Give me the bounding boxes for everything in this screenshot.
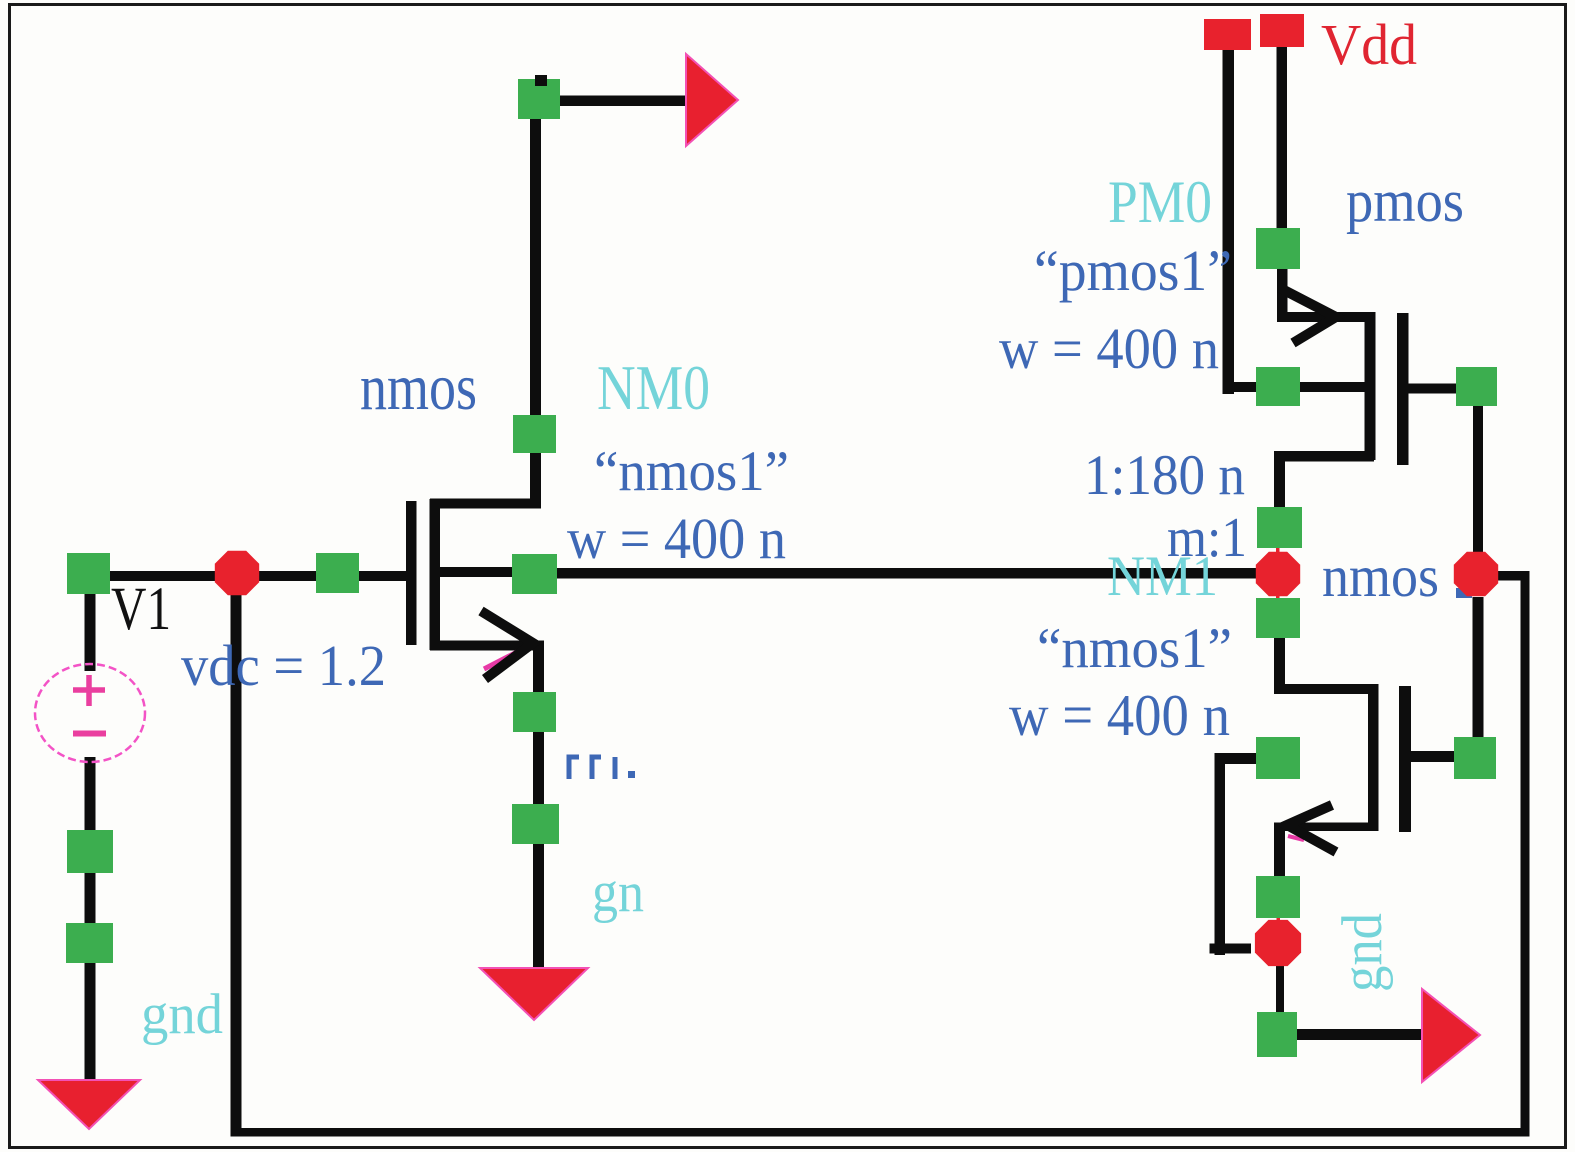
- pin square PM0 bulk: [1256, 367, 1300, 406]
- wire stub node to right bus: [1490, 571, 1529, 581]
- transistor NM0 drain arm: [430, 499, 541, 509]
- svg-text:nmos: nmos: [360, 351, 477, 424]
- pin square PM0 gate: [1456, 367, 1497, 406]
- text fragment marks blue: [569, 757, 615, 779]
- transistor PM0 source arm: [1277, 312, 1369, 322]
- wire bottom bus: [231, 1128, 1530, 1137]
- wire junction drop left: [231, 578, 242, 1136]
- voltage source V1 circle: [35, 664, 145, 762]
- port triangle output top: [686, 54, 738, 146]
- wire NM1 bulk bottom stub: [1210, 944, 1252, 954]
- pin square gnd net bottom right: [1257, 1012, 1297, 1057]
- supply square Vdd left: [1204, 19, 1251, 50]
- ground triangle right: [1422, 989, 1480, 1082]
- transistor NM1 drain arm: [1274, 684, 1378, 694]
- net line red above NM1 source node: [1277, 912, 1281, 924]
- wire NM0 source vertical: [533, 645, 544, 975]
- svg-text:NM0: NM0: [597, 352, 710, 423]
- wire PM0 bulk arm right: [1295, 382, 1370, 392]
- svg-text:gn: gn: [592, 861, 644, 924]
- transistor NM0 gate bar: [406, 501, 417, 645]
- wire output top horizontal: [556, 96, 691, 107]
- svg-text:V1: V1: [111, 576, 171, 643]
- transistor NM1 arrow magenta mark: [1288, 836, 1304, 840]
- net line red above node1: [1276, 543, 1280, 553]
- svg-text:gnd: gnd: [1331, 913, 1394, 992]
- svg-text:gnd: gnd: [141, 983, 223, 1046]
- transistor PM0 gate bar: [1397, 313, 1409, 465]
- transistor NM1 channel bar: [1368, 684, 1379, 831]
- voltage source V1 minus symbol: [73, 731, 106, 737]
- wire PM0 Vdd left vertical: [1223, 48, 1235, 394]
- transistor NM0 arrow magenta mark: [484, 652, 517, 669]
- transistor NM1 source arrow: [1287, 805, 1336, 852]
- svg-text:nmos: nmos: [1322, 543, 1439, 609]
- wire NM0 drain vertical: [530, 115, 541, 507]
- svg-text:1:180 n: 1:180 n: [1084, 444, 1245, 507]
- pin square NM1 bulk: [1256, 737, 1300, 779]
- svg-text:w = 400 n: w = 400 n: [1009, 682, 1230, 748]
- pin square V1 minus 1: [67, 830, 113, 873]
- pin square NM1 drain: [1256, 598, 1300, 638]
- wire right bus vertical: [1521, 571, 1530, 1136]
- transistor NM1 gate lead: [1411, 751, 1456, 762]
- pin square NM0 source: [513, 692, 556, 732]
- junction dot node2: [1454, 552, 1498, 596]
- wire NM1 bulk vertical: [1215, 753, 1226, 955]
- pin square output top: [518, 79, 560, 119]
- svg-text:PM0: PM0: [1108, 169, 1212, 235]
- pin square NM1 gate: [1454, 737, 1496, 779]
- ground triangle middle: [480, 968, 588, 1020]
- svg-text:Vdd: Vdd: [1321, 12, 1417, 77]
- wire gnd lead bottom right: [1290, 1029, 1430, 1040]
- svg-text:“pmos1”: “pmos1”: [1034, 238, 1232, 303]
- transistor NM1 source arm: [1274, 823, 1372, 832]
- transistor PM0 drain arm: [1274, 451, 1374, 462]
- pin mark output top: [535, 75, 547, 86]
- svg-text:pmos: pmos: [1346, 168, 1464, 234]
- svg-text:w = 400 n: w = 400 n: [567, 506, 786, 571]
- transistor NM0 source arrow: [481, 611, 533, 679]
- wire PM0 Vdd right vertical: [1277, 45, 1288, 235]
- pin square gnd net mid: [512, 804, 559, 844]
- transistor PM0 gate lead: [1408, 384, 1458, 394]
- wire NM1 source vertical: [1274, 824, 1285, 880]
- svg-text:vdc = 1.2: vdc = 1.2: [181, 633, 386, 698]
- transistor NM0 source arm: [430, 641, 544, 651]
- pin square PM0 drain: [1257, 507, 1302, 548]
- voltage source V1 plus symbol: [73, 675, 105, 706]
- transistor NM0 channel bar: [430, 499, 441, 650]
- junction dot node1: [1256, 552, 1300, 596]
- svg-text:w = 400 n: w = 400 n: [999, 316, 1219, 381]
- pin square NM0 bulk: [512, 554, 557, 594]
- wire V1 minus drop: [85, 757, 96, 1085]
- pin square V1 minus 2: [66, 923, 113, 963]
- pin square wire left of NM0 gate: [316, 553, 359, 593]
- transistor NM0 bulk lead: [440, 567, 515, 577]
- transistor NM1 gate bar: [1399, 686, 1411, 832]
- svg-text:“nmos1”: “nmos1”: [1037, 617, 1232, 680]
- text fragment blue under node2: [1456, 588, 1472, 598]
- wire NM1 drain vertical: [1274, 634, 1285, 690]
- wire dot to gnd pin: [1276, 962, 1284, 1016]
- supply square Vdd right: [1260, 14, 1304, 47]
- wire NM0 bulk to node horizontal: [550, 568, 1260, 579]
- pin square PM0 source: [1256, 228, 1300, 269]
- svg-text:NM1: NM1: [1107, 545, 1218, 608]
- pin square NM0 drain: [513, 415, 556, 453]
- wire V1 gate horizontal: [85, 571, 407, 581]
- wire V1 plus drop: [85, 594, 96, 671]
- transistor PM0 channel bar: [1365, 312, 1376, 460]
- text fragment dot blue: [628, 771, 635, 778]
- transistor NM1 bulk lead: [1215, 753, 1257, 764]
- transistor PM0 source arrow: [1280, 288, 1336, 343]
- junction dot NM1 source node: [1255, 920, 1301, 966]
- wire PM0 bulk horizontal left: [1223, 382, 1268, 392]
- junction dot V1 node: [215, 551, 259, 595]
- net line red below node1: [1276, 594, 1280, 600]
- wire PM0 gate net vertical: [1473, 406, 1483, 556]
- pin square NM1 source: [1256, 876, 1300, 918]
- wire NM1 gate net vertical: [1473, 597, 1484, 742]
- svg-text:“nmos1”: “nmos1”: [594, 440, 789, 503]
- wire PM0 drain vertical: [1274, 456, 1285, 511]
- ground triangle left: [38, 1080, 140, 1129]
- wire PM0 source vertical: [1277, 262, 1288, 319]
- pin square V1 plus: [67, 553, 110, 594]
